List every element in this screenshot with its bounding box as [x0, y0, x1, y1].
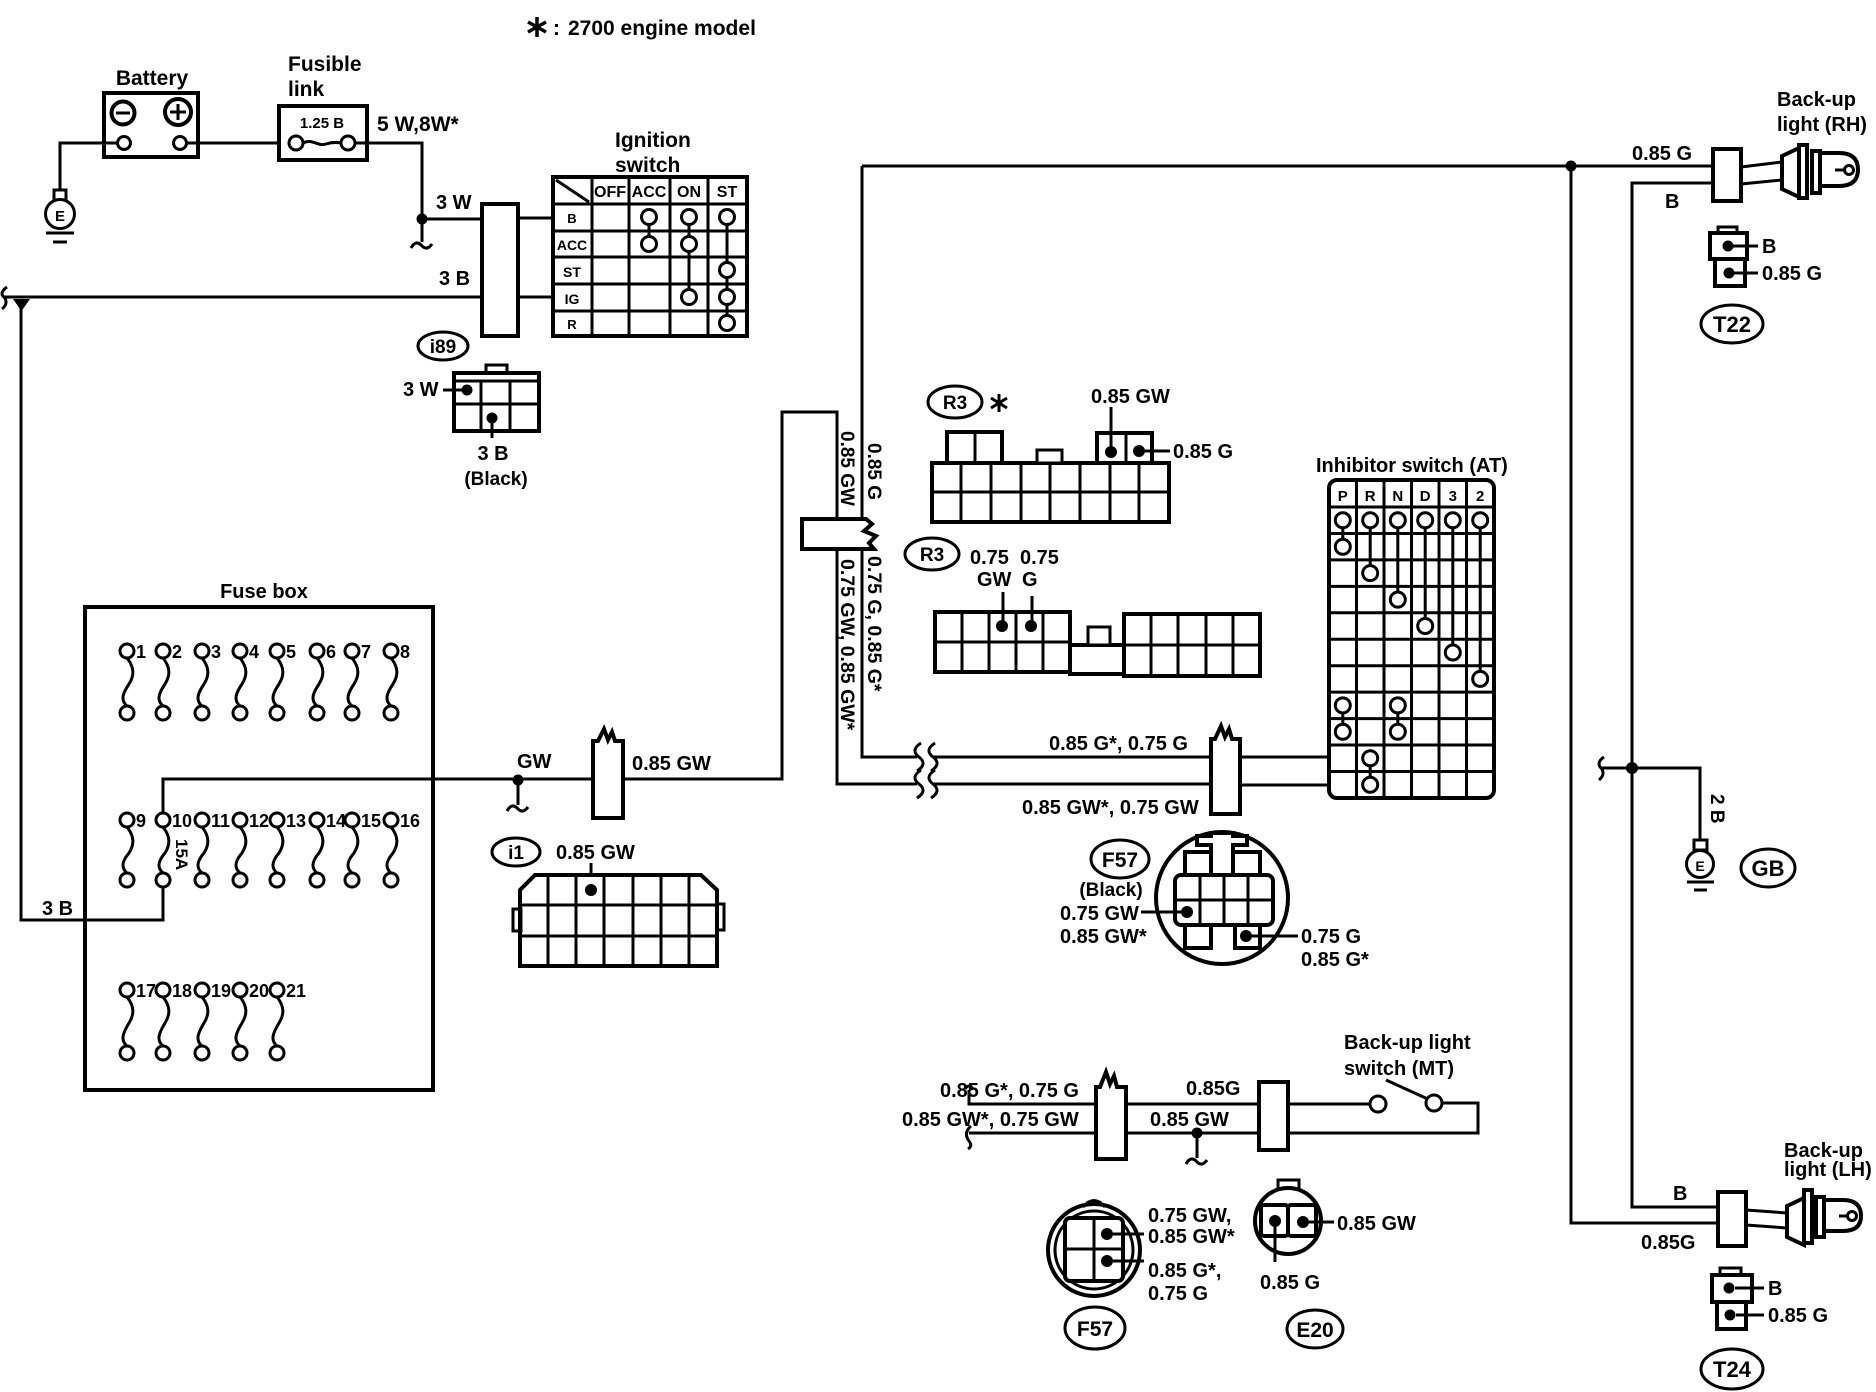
fuse 5: [273, 658, 283, 706]
connector (MT feed 1): [1096, 1072, 1126, 1159]
svg-text:(Black): (Black): [464, 469, 527, 490]
svg-text:Fusible: Fusible: [288, 53, 362, 76]
fuse 14: [313, 827, 323, 873]
svg-text:Back-up: Back-up: [1777, 89, 1856, 111]
inhibitor switch (AT): [1316, 455, 1508, 798]
svg-text:0.85 GW: 0.85 GW: [632, 753, 711, 775]
svg-text:0.85 G: 0.85 G: [863, 443, 884, 500]
connector i89 (ignition switch feed): [482, 204, 518, 336]
svg-text:21: 21: [286, 981, 306, 1001]
svg-text:13: 13: [286, 811, 306, 831]
connector T24 pins: [1712, 1268, 1828, 1329]
fuse 7: [348, 658, 358, 706]
wire break marks (harness continues): [915, 743, 923, 771]
svg-text:18: 18: [172, 981, 192, 1001]
svg-text:0.75 GW,: 0.75 GW,: [1148, 1205, 1231, 1227]
note: 2700 engine model legend: [528, 17, 756, 40]
svg-text:P: P: [1338, 488, 1348, 505]
svg-text:1.25 B: 1.25 B: [300, 115, 344, 132]
fuse 6: [313, 658, 323, 706]
svg-text:9: 9: [136, 811, 146, 831]
wire: 0.85 G*, 0.75 G to inhibitor switch: [933, 756, 1211, 759]
svg-text:B: B: [1768, 1278, 1782, 1300]
svg-text:20: 20: [249, 981, 269, 1001]
svg-text:ST: ST: [717, 184, 738, 201]
svg-text:0.85 G: 0.85 G: [1173, 441, 1233, 463]
connector R3 (2700 engine): [928, 386, 1233, 522]
svg-text:0.75 G: 0.75 G: [1301, 926, 1361, 948]
svg-text:2 B: 2 B: [1706, 794, 1727, 824]
connector label E20: [1287, 1310, 1343, 1348]
svg-text:19: 19: [211, 981, 231, 1001]
svg-text:ACC: ACC: [557, 237, 587, 253]
svg-text:5 W,8W*: 5 W,8W*: [377, 113, 460, 136]
wire: battery negative to ground E: [60, 143, 117, 190]
fuse 15: [348, 827, 358, 873]
svg-text:G: G: [1022, 569, 1038, 591]
fuse 2: [159, 658, 169, 706]
svg-text:D: D: [1420, 488, 1431, 505]
svg-text:0.85 GW*, 0.75 GW: 0.85 GW*, 0.75 GW: [1022, 797, 1199, 819]
wire: B return RH down to LH: [1632, 183, 1718, 1207]
svg-text:0.85 GW: 0.85 GW: [556, 842, 635, 864]
back-up light (LH): [1641, 1140, 1872, 1254]
svg-text:T22: T22: [1713, 312, 1751, 337]
wire stub below 3W junction: [421, 219, 424, 242]
connector on GW wire (i1 feed): [593, 729, 623, 818]
svg-text:switch: switch: [615, 154, 680, 177]
wire: 0.85 G top run to back-up light RH: [862, 165, 1713, 168]
svg-text:IG: IG: [565, 291, 580, 307]
svg-text:0.85 G: 0.85 G: [1632, 143, 1692, 165]
connector across GW/G risers: [802, 519, 876, 549]
svg-text:0.85 G*,: 0.85 G*,: [1148, 1260, 1221, 1282]
svg-text:15A: 15A: [172, 839, 191, 870]
svg-text:0.85 G*, 0.75 G: 0.85 G*, 0.75 G: [1049, 733, 1188, 755]
connector T22 pins: [1710, 227, 1822, 286]
svg-text:link: link: [288, 78, 324, 101]
svg-text:E: E: [1695, 858, 1704, 874]
connector to inhibitor switch: [1211, 726, 1240, 814]
svg-text:E: E: [55, 208, 65, 225]
svg-text:F57: F57: [1077, 1318, 1113, 1341]
svg-text:ST: ST: [563, 264, 581, 280]
svg-text:B: B: [567, 211, 576, 226]
connector F57 face (black): [1060, 832, 1369, 971]
connector label GB: [1741, 849, 1795, 887]
svg-text:3 B: 3 B: [42, 898, 73, 920]
ignition switch table: [553, 129, 747, 336]
svg-text:1: 1: [136, 642, 146, 662]
svg-text:0.85 G*: 0.85 G*: [1301, 949, 1369, 971]
svg-text:F57: F57: [1102, 849, 1138, 872]
svg-text:Battery: Battery: [116, 67, 189, 90]
connector label i1: [492, 838, 540, 866]
fuse 10: [159, 827, 169, 873]
svg-text:3 W: 3 W: [436, 192, 472, 214]
svg-text:8: 8: [400, 642, 410, 662]
connector label F57: [1065, 1307, 1125, 1349]
fuse 11: [198, 827, 208, 873]
fuse 12: [236, 827, 246, 873]
svg-text:4: 4: [249, 642, 259, 662]
fuse 1: [123, 658, 133, 706]
svg-text:ACC: ACC: [632, 184, 667, 201]
wire: 0.85 G drop to LH: [1571, 166, 1718, 1223]
svg-text:light (LH): light (LH): [1784, 1159, 1872, 1181]
wire: 0.85 G riser: [862, 166, 917, 757]
svg-text:0.85 GW: 0.85 GW: [1337, 1213, 1416, 1235]
svg-text:0.85 GW*, 0.75 GW: 0.85 GW*, 0.75 GW: [902, 1109, 1079, 1131]
node: junction to LH drop: [1566, 161, 1577, 172]
connector label T22: [1701, 305, 1763, 343]
fuse 8: [387, 658, 397, 706]
svg-text:0.75: 0.75: [1020, 547, 1059, 569]
svg-text:(Black): (Black): [1079, 880, 1142, 901]
svg-text:GB: GB: [1752, 856, 1785, 881]
svg-text:OFF: OFF: [594, 184, 626, 201]
svg-text:10: 10: [172, 811, 192, 831]
svg-text:0.85 G: 0.85 G: [1260, 1272, 1320, 1294]
svg-text:0.75: 0.75: [970, 547, 1009, 569]
ground E (right): [1687, 840, 1715, 890]
svg-text:0.85G: 0.85G: [1186, 1078, 1240, 1100]
svg-text:2: 2: [1476, 488, 1484, 505]
svg-text:B: B: [1665, 191, 1679, 213]
svg-text:0.85G: 0.85G: [1641, 1232, 1695, 1254]
svg-text:14: 14: [326, 811, 346, 831]
svg-text:6: 6: [326, 642, 336, 662]
svg-text:3: 3: [1449, 488, 1457, 505]
svg-text:i89: i89: [430, 337, 456, 358]
svg-text:ON: ON: [677, 184, 701, 201]
svg-text:3 B: 3 B: [439, 268, 470, 290]
svg-text:E20: E20: [1296, 1319, 1333, 1342]
svg-text:0.85 G: 0.85 G: [1762, 263, 1822, 285]
ground E (battery): [46, 190, 75, 242]
fuse 16: [387, 827, 397, 873]
svg-text:3 B: 3 B: [477, 443, 508, 465]
svg-text:15: 15: [361, 811, 381, 831]
wire: 2 B ground branch: [1601, 768, 1700, 840]
svg-text:3 W: 3 W: [403, 379, 439, 401]
wire: battery positive to fusible link: [187, 142, 288, 145]
svg-text:Back-up light: Back-up light: [1344, 1032, 1471, 1054]
svg-text:0.85 G: 0.85 G: [1768, 1305, 1828, 1327]
connector i1 pin grid: [513, 875, 724, 966]
svg-text:0.85 GW: 0.85 GW: [1091, 386, 1170, 408]
svg-text:11: 11: [211, 811, 230, 831]
connector F57 face (bottom): [1048, 1201, 1235, 1306]
svg-text:0.85 GW*: 0.85 GW*: [1148, 1226, 1235, 1248]
fuse box: [85, 581, 433, 1090]
wires to back-up light switch MT: [902, 1080, 1096, 1149]
svg-text:2: 2: [172, 642, 182, 662]
svg-text:0.85 GW*: 0.85 GW*: [1060, 926, 1147, 948]
svg-text::: :: [553, 17, 560, 40]
node: junction on B wire: [1626, 762, 1638, 774]
fuse 21: [273, 997, 283, 1046]
svg-text:R: R: [1365, 488, 1376, 505]
svg-text:7: 7: [361, 642, 371, 662]
back-up light (RH): [1713, 89, 1867, 201]
fuse 3: [198, 658, 208, 706]
connector label T24: [1701, 1349, 1763, 1389]
fuse 4: [236, 658, 246, 706]
svg-text:GW: GW: [517, 751, 552, 773]
battery: [104, 67, 198, 157]
svg-text:3: 3: [211, 642, 221, 662]
svg-text:Ignition: Ignition: [615, 129, 691, 152]
svg-text:switch (MT): switch (MT): [1344, 1058, 1454, 1080]
svg-text:17: 17: [136, 981, 156, 1001]
svg-text:2700 engine model: 2700 engine model: [568, 17, 756, 40]
svg-text:i1: i1: [508, 843, 524, 864]
wire: 3 B bus from left edge to ignition switch: [3, 296, 482, 299]
svg-text:R: R: [567, 317, 577, 332]
connector i89 pin grid: [403, 365, 539, 490]
wire: 0.85 GW*, 0.75 GW to inhibitor switch: [933, 783, 1211, 786]
node: 3W junction: [417, 214, 428, 225]
svg-text:0.85 GW: 0.85 GW: [836, 431, 857, 506]
svg-text:light (RH): light (RH): [1777, 114, 1867, 136]
svg-text:0.75 GW: 0.75 GW: [1060, 903, 1139, 925]
connector E20 face: [1255, 1180, 1416, 1294]
fuse 13: [273, 827, 283, 873]
wire: GW from fuse 10 through connector i1 feed: [163, 412, 917, 813]
fuse 17: [123, 997, 133, 1046]
fuse 9: [123, 827, 133, 873]
node: GW junction: [513, 775, 524, 786]
fuse 19: [198, 997, 208, 1046]
svg-text:16: 16: [400, 811, 420, 831]
back-up light switch (MT): [1288, 1032, 1478, 1133]
svg-text:R3: R3: [920, 545, 944, 566]
fuse 20: [236, 997, 246, 1046]
node: junction on 0.85 GW: [1192, 1128, 1203, 1139]
svg-text:T24: T24: [1713, 1357, 1752, 1382]
svg-text:N: N: [1392, 488, 1403, 505]
svg-text:0.85 GW: 0.85 GW: [1150, 1109, 1229, 1131]
svg-text:0.85 G*, 0.75 G: 0.85 G*, 0.75 G: [940, 1080, 1079, 1102]
svg-text:Fuse box: Fuse box: [220, 581, 308, 603]
svg-text:0.75 G, 0.85 G*: 0.75 G, 0.85 G*: [863, 556, 885, 692]
svg-text:B: B: [1673, 1183, 1687, 1205]
svg-text:12: 12: [249, 811, 269, 831]
fuse 18: [159, 997, 169, 1046]
wire: 3 B down to fuse box: [21, 299, 163, 920]
svg-text:Inhibitor switch (AT): Inhibitor switch (AT): [1316, 455, 1508, 477]
svg-text:GW: GW: [977, 569, 1012, 591]
svg-text:5: 5: [286, 642, 296, 662]
svg-text:0.75 G: 0.75 G: [1148, 1283, 1208, 1305]
connector label i89: [418, 332, 468, 360]
svg-text:R3: R3: [943, 393, 967, 414]
connector (MT feed 2): [1259, 1082, 1288, 1150]
fusible link 1.25 B: [279, 53, 367, 160]
svg-text:B: B: [1762, 236, 1776, 258]
connector R3: [905, 538, 1260, 676]
wire: fusible link to ignition switch, 3 W: [355, 143, 482, 219]
node: 3B tap junction: [13, 299, 30, 311]
svg-text:0.75 GW, 0.85 GW*: 0.75 GW, 0.85 GW*: [836, 559, 858, 731]
